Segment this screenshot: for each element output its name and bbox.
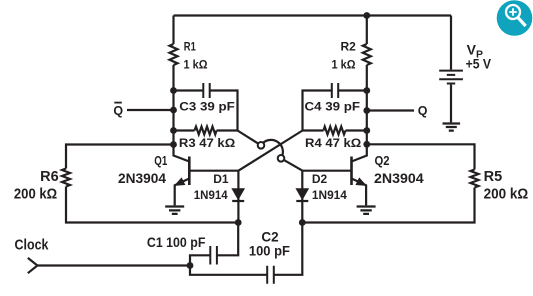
wire R3 right: [217, 129, 238, 131]
wire top rail: [174, 14, 452, 16]
wire hop arc: [261, 140, 283, 158]
node dot C3 left: [170, 87, 177, 94]
wire Q1 base: [189, 170, 238, 172]
node dot rail R2: [363, 12, 370, 19]
svg-text:Clock: Clock: [15, 237, 50, 253]
node dot R3 left: [170, 127, 177, 134]
svg-text:+5 V: +5 V: [466, 55, 492, 71]
wire C1 right up to node: [217, 223, 238, 256]
svg-text:R6: R6: [40, 169, 59, 185]
svg-text:1N914: 1N914: [194, 188, 228, 202]
svg-text:C4 39 pF: C4 39 pF: [305, 100, 361, 114]
svg-text:200 kΩ: 200 kΩ: [14, 187, 58, 203]
svg-text:C1 100 pF: C1 100 pF: [147, 235, 206, 250]
capacitor C1: [210, 246, 217, 265]
clock chevron: [28, 258, 38, 273]
svg-text:100 pF: 100 pF: [249, 244, 290, 259]
wire C2 left: [190, 266, 267, 275]
resistor R6: [62, 169, 70, 187]
node dot R5 top: [363, 141, 370, 148]
resistor R2: [363, 44, 371, 65]
wire R6 bottom to D1 node: [66, 187, 238, 223]
svg-text:R4 47 kΩ: R4 47 kΩ: [305, 136, 362, 150]
resistor R3: [195, 127, 217, 135]
node dot R6 top: [170, 141, 177, 148]
wire C1 left: [190, 255, 210, 265]
diode D1: [232, 171, 244, 223]
resistor R5: [471, 170, 479, 188]
svg-text:2N3904: 2N3904: [118, 171, 166, 186]
ground Q2 emitter: [357, 207, 376, 214]
transistor Q1: [174, 145, 190, 206]
svg-text:1 kΩ: 1 kΩ: [184, 58, 208, 72]
svg-text:C2: C2: [261, 230, 278, 245]
wire R5 bottom to D2 node: [302, 188, 474, 223]
node dot Q: [363, 107, 370, 114]
node dot Qbar: [170, 107, 177, 114]
wire cross diagonal from R3 corner to hop: [238, 131, 262, 146]
wire R4 right: [346, 129, 367, 131]
wire C2 right up to node: [274, 223, 303, 275]
node hop circle right: [278, 155, 285, 162]
wire hop to Q2 base: [281, 158, 303, 170]
svg-text:Q: Q: [113, 104, 123, 118]
wire right node column: [366, 16, 368, 145]
wire cross diagonal from R4 corner to Q1 base: [238, 131, 302, 171]
svg-text:D1: D1: [213, 172, 229, 186]
svg-text:1 kΩ: 1 kΩ: [332, 58, 356, 72]
svg-text:R2: R2: [341, 40, 357, 54]
node dot D1 bottom: [235, 219, 242, 226]
capacitor C2: [267, 266, 274, 284]
svg-text:Q1: Q1: [154, 154, 167, 168]
wire Q output: [367, 109, 414, 111]
svg-text:R1: R1: [184, 40, 196, 54]
wire C4 left to R4 corner: [303, 91, 332, 131]
wire Qbar output: [127, 109, 174, 111]
wire R6 top: [66, 145, 174, 169]
capacitor C4: [332, 83, 338, 98]
battery VP: [439, 16, 463, 123]
svg-text:D2: D2: [312, 172, 328, 186]
svg-text:1N914: 1N914: [312, 188, 347, 202]
wire left node column: [172, 16, 174, 145]
svg-text:2N3904: 2N3904: [374, 171, 424, 186]
wire R4 left: [303, 129, 324, 131]
node dot R4 right: [363, 127, 370, 134]
resistor R4: [324, 127, 346, 135]
node dot clock C1 C2: [187, 262, 194, 269]
ground Q1 emitter: [165, 207, 184, 214]
wire C3 left: [174, 89, 204, 91]
node dot C4 right: [363, 87, 370, 94]
transistor Q2: [352, 144, 367, 205]
resistor R1: [170, 44, 178, 65]
svg-text:C3 39 pF: C3 39 pF: [179, 100, 235, 114]
svg-text:200 kΩ: 200 kΩ: [484, 187, 529, 203]
capacitor C3: [203, 83, 209, 98]
svg-text:R3 47 kΩ: R3 47 kΩ: [179, 136, 236, 150]
zoom icon: [497, 0, 533, 36]
wire clock input: [37, 264, 190, 266]
svg-text:Q2: Q2: [375, 154, 390, 168]
diode D2: [296, 171, 308, 223]
wire Q2 base: [303, 170, 352, 172]
wire C3 right to R3 corner: [210, 91, 238, 131]
node hop circle left: [258, 142, 265, 149]
Qbar overbar: [114, 102, 122, 104]
wire R3 left: [174, 129, 195, 131]
svg-text:R5: R5: [484, 169, 503, 185]
wire C4 right: [338, 89, 367, 91]
ground battery: [443, 124, 461, 131]
svg-text:Q: Q: [418, 104, 428, 118]
wire R5 top: [367, 144, 475, 169]
node dot D2 bottom: [299, 219, 306, 226]
